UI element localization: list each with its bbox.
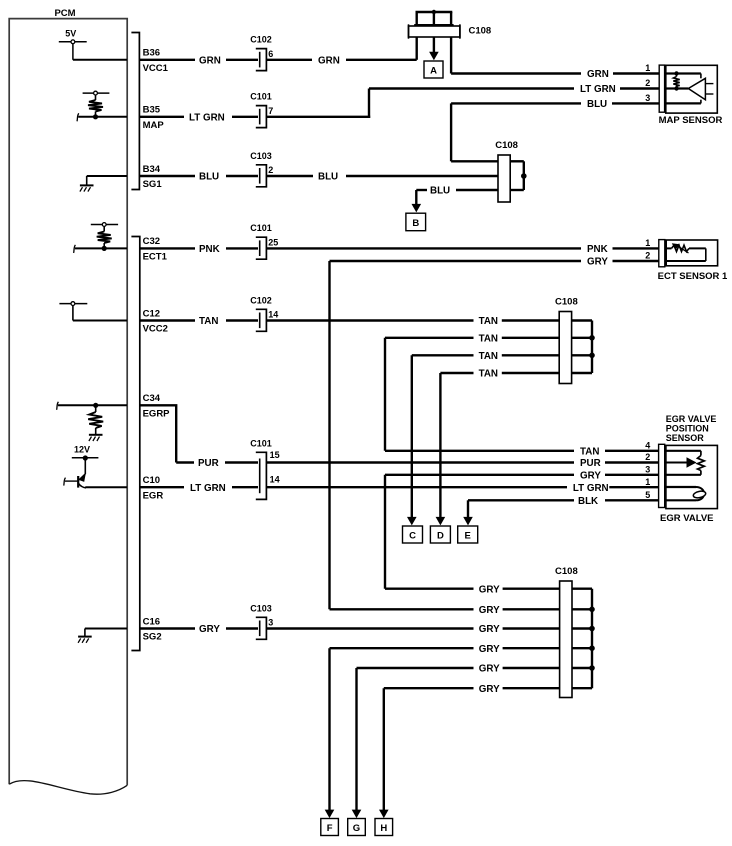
svg-text:C102: C102 [250,35,272,45]
svg-text:ECT SENSOR 1: ECT SENSOR 1 [658,271,728,282]
svg-text:C12: C12 [143,308,160,319]
svg-text:C103: C103 [250,151,272,161]
svg-text:GRN: GRN [587,69,609,80]
svg-text:C101: C101 [250,92,272,102]
svg-text:7: 7 [268,106,273,116]
svg-text:BLU: BLU [430,186,450,197]
svg-text:BLU: BLU [199,172,219,183]
svg-text:SG1: SG1 [143,179,163,190]
svg-text:GRN: GRN [199,56,221,67]
svg-text:EGR VALVE: EGR VALVE [660,513,714,524]
svg-text:C102: C102 [250,295,272,305]
svg-text:C16: C16 [143,616,160,627]
svg-text:E: E [465,531,471,542]
svg-text:C108: C108 [495,140,518,151]
svg-text:2: 2 [645,452,650,462]
svg-text:F: F [327,823,333,834]
svg-text:C108: C108 [555,296,578,307]
svg-text:3: 3 [645,465,650,475]
svg-text:B35: B35 [143,105,161,116]
svg-text:SENSOR: SENSOR [666,433,705,443]
svg-text:LT GRN: LT GRN [573,483,609,494]
svg-text:TAN: TAN [479,316,498,327]
svg-text:C34: C34 [143,393,161,404]
svg-text:POSITION: POSITION [666,424,709,434]
svg-text:BLU: BLU [587,99,607,110]
svg-text:EGR: EGR [143,490,164,501]
svg-text:C101: C101 [250,223,272,233]
svg-text:1: 1 [645,63,650,73]
svg-text:C108: C108 [469,26,492,37]
svg-text:1: 1 [645,477,650,487]
svg-text:2: 2 [645,251,650,261]
svg-text:GRY: GRY [479,644,500,655]
svg-text:PNK: PNK [199,244,220,255]
svg-text:3: 3 [268,618,273,628]
svg-text:ECT1: ECT1 [143,252,168,263]
svg-text:GRN: GRN [318,56,340,67]
svg-text:C103: C103 [250,603,272,613]
svg-text:3: 3 [645,93,650,103]
svg-text:GRY: GRY [479,684,500,695]
svg-text:GRY: GRY [587,257,608,268]
svg-text:12V: 12V [74,445,90,455]
svg-text:GRY: GRY [479,605,500,616]
svg-text:PNK: PNK [587,244,608,255]
svg-text:5: 5 [645,490,650,500]
svg-text:GRY: GRY [479,624,500,635]
svg-text:EGR VALVE: EGR VALVE [666,414,717,424]
svg-text:B: B [412,218,419,229]
svg-text:GRY: GRY [479,584,500,595]
svg-text:GRY: GRY [199,624,220,635]
svg-text:C: C [409,531,416,542]
svg-text:MAP SENSOR: MAP SENSOR [659,115,723,126]
svg-text:PCM: PCM [54,8,75,19]
svg-text:VCC1: VCC1 [143,63,169,74]
svg-text:GRY: GRY [580,471,601,482]
svg-text:15: 15 [270,450,280,460]
svg-text:BLU: BLU [318,172,338,183]
svg-text:G: G [353,823,360,834]
svg-text:H: H [380,823,387,834]
svg-text:1: 1 [645,238,650,248]
svg-text:LT GRN: LT GRN [190,483,226,494]
svg-text:VCC2: VCC2 [143,324,168,335]
svg-text:MAP: MAP [143,120,165,131]
svg-text:TAN: TAN [479,369,498,380]
svg-text:EGRP: EGRP [143,409,171,420]
svg-text:D: D [437,531,444,542]
svg-text:SG2: SG2 [143,632,162,643]
svg-text:PUR: PUR [198,458,219,469]
svg-text:TAN: TAN [479,351,498,362]
svg-text:C32: C32 [143,236,160,247]
svg-text:2: 2 [645,78,650,88]
svg-text:TAN: TAN [479,334,498,345]
svg-text:LT GRN: LT GRN [580,84,616,95]
svg-text:14: 14 [270,475,280,485]
svg-text:TAN: TAN [580,447,599,458]
svg-text:GRY: GRY [479,664,500,675]
svg-text:B36: B36 [143,48,160,59]
svg-text:C10: C10 [143,475,160,486]
svg-text:LT GRN: LT GRN [189,113,225,124]
svg-text:A: A [430,66,437,77]
svg-text:25: 25 [268,237,278,247]
svg-text:2: 2 [268,165,273,175]
svg-text:B34: B34 [143,164,161,175]
svg-text:C108: C108 [555,566,578,577]
svg-text:PUR: PUR [580,458,601,469]
svg-text:4: 4 [645,441,650,451]
svg-text:TAN: TAN [199,316,218,327]
svg-text:BLK: BLK [578,496,598,507]
svg-text:6: 6 [268,49,273,59]
svg-text:C101: C101 [250,438,272,448]
svg-text:5V: 5V [65,29,76,39]
svg-text:14: 14 [268,310,278,320]
